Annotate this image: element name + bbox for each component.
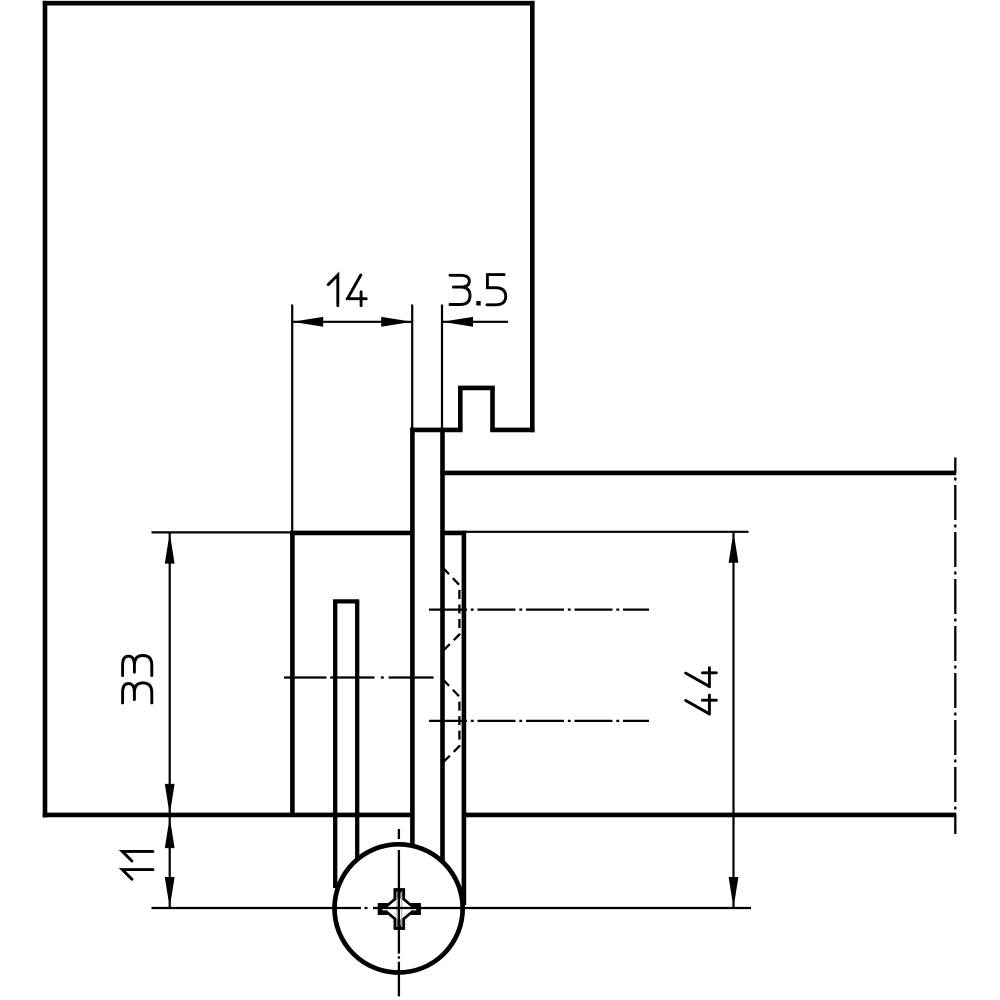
arrow 14 right (381, 317, 412, 327)
arrow 3.5 (442, 317, 473, 327)
dimension line 44 (732, 532, 734, 908)
centre line knuckle vertical (398, 829, 400, 996)
notch top (458, 386, 495, 391)
arrow 44 up (729, 532, 739, 563)
centre line door screw (284, 676, 434, 678)
frame profile bottom edge right segment (490, 428, 534, 433)
dimension text 14 (328, 275, 366, 306)
slot left side (333, 601, 337, 888)
panel top edge (440, 471, 956, 476)
dimension line 33 and 11 (169, 532, 171, 908)
frame profile top edge (43, 1, 535, 6)
extension line 3.5 (441, 305, 443, 430)
hinge leaf right edge (440, 428, 445, 862)
extension line 14 right (411, 305, 413, 430)
door recess vertical edge (290, 531, 295, 815)
hinge leaf left edge (410, 428, 415, 846)
panel rebate corner horizontal (440, 531, 464, 536)
extension line 33 top left (152, 531, 293, 533)
hinge knuckle circle (335, 844, 463, 972)
frame profile left edge (43, 1, 48, 818)
arrow 11 down (165, 877, 175, 908)
arrow 11 up (165, 817, 175, 848)
extension line 44 top right (464, 531, 749, 533)
break line right (954, 458, 956, 835)
dimension text 44 (686, 668, 717, 714)
slot top cap (333, 599, 359, 603)
centre line panel screw lower (429, 720, 649, 722)
frame profile bottom edge left segment (410, 428, 463, 433)
arrow 44 down (729, 877, 739, 908)
phillips inner shading right (401, 892, 403, 928)
slot right side (355, 601, 359, 861)
panel face vertical (462, 531, 467, 905)
notch right side (490, 388, 495, 430)
extension line 14 left (291, 305, 293, 533)
dimension text 33 (123, 656, 152, 703)
panel bottom edge (462, 813, 956, 818)
phillips recess chamfer diagonals (387, 898, 411, 920)
dimension text 11 (122, 851, 153, 879)
centre line panel screw upper (429, 608, 649, 610)
frame profile right edge (530, 1, 535, 432)
dimension line 14 (292, 321, 412, 323)
dimension line 3.5 leader (442, 321, 508, 323)
arrow 33 down (165, 784, 175, 815)
arrow 33 up (165, 533, 175, 564)
hidden screw hole upper (443, 568, 460, 651)
phillips inner shading left (396, 892, 398, 928)
phillips screw recess (378, 888, 421, 929)
dimension text 3.5 (450, 275, 506, 306)
door bottom edge (43, 813, 412, 818)
hidden screw hole lower (443, 679, 460, 762)
door recess shoulder (290, 531, 414, 536)
notch left side (458, 388, 463, 430)
arrow 14 left (292, 317, 323, 327)
extension line bottom / knuckle axis (152, 907, 752, 909)
